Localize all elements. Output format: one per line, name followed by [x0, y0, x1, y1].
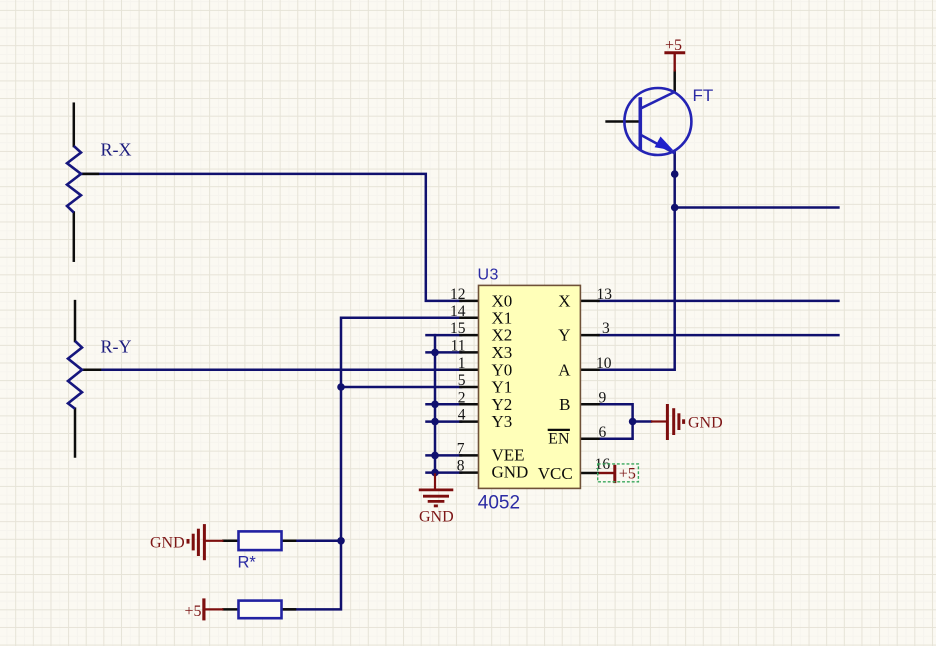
svg-text:4052: 4052 [478, 493, 520, 514]
svg-text:4: 4 [458, 407, 466, 424]
svg-text:Y1: Y1 [492, 378, 513, 397]
svg-text:+5: +5 [665, 37, 682, 54]
svg-text:10: 10 [596, 355, 612, 372]
svg-text:+5: +5 [185, 603, 202, 620]
svg-text:R*: R* [238, 554, 257, 572]
svg-text:7: 7 [457, 441, 465, 458]
svg-text:GND: GND [492, 463, 529, 482]
svg-text:X: X [558, 292, 570, 311]
svg-text:X3: X3 [492, 343, 513, 362]
svg-text:9: 9 [599, 389, 607, 406]
svg-text:Y: Y [558, 326, 570, 345]
svg-text:15: 15 [450, 320, 466, 337]
svg-text:VCC: VCC [538, 464, 573, 483]
svg-text:5: 5 [458, 372, 466, 389]
svg-text:14: 14 [450, 303, 466, 320]
svg-text:+5: +5 [619, 466, 636, 483]
svg-text:3: 3 [602, 320, 610, 337]
svg-text:12: 12 [450, 286, 466, 303]
svg-text:8: 8 [457, 458, 465, 475]
svg-text:R-Y: R-Y [101, 337, 132, 357]
svg-text:GND: GND [419, 509, 454, 526]
svg-text:2: 2 [458, 389, 466, 406]
svg-text:6: 6 [599, 424, 607, 441]
svg-text:X2: X2 [492, 326, 513, 345]
svg-text:A: A [558, 360, 571, 379]
svg-text:Y2: Y2 [492, 395, 513, 414]
svg-text:Y0: Y0 [492, 360, 513, 379]
svg-text:B: B [559, 395, 570, 414]
svg-text:GND: GND [688, 415, 723, 432]
svg-text:EN: EN [548, 431, 570, 448]
svg-text:1: 1 [458, 355, 466, 372]
svg-text:Y3: Y3 [492, 412, 513, 431]
svg-text:R-X: R-X [101, 139, 132, 159]
svg-text:FT: FT [693, 86, 714, 105]
svg-text:GND: GND [150, 535, 185, 552]
svg-text:U3: U3 [478, 267, 499, 284]
svg-text:13: 13 [597, 286, 613, 303]
svg-text:X1: X1 [492, 308, 513, 327]
svg-text:11: 11 [451, 338, 466, 355]
